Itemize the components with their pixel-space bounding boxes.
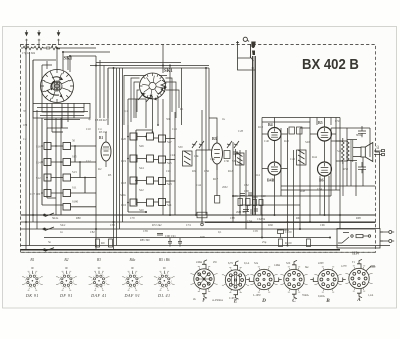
svg-text:S27: S27: [167, 140, 172, 144]
svg-text:R60: R60: [268, 223, 274, 227]
connector F: [190, 260, 217, 298]
wire rect around SK1a: [33, 48, 110, 132]
wire vertical x100: [99, 60, 101, 118]
wire vertical x96: [95, 56, 97, 250]
output transformer primary winding: [342, 138, 345, 164]
svg-text:R40: R40: [284, 139, 290, 143]
wire verticals x170 x175: [170, 66, 175, 216]
labels near B3: [194, 154, 237, 181]
bus y222: [21, 221, 221, 223]
wire vertical x37: [36, 110, 38, 229]
svg-text:C62 5n: C62 5n: [257, 218, 266, 221]
tube socket B4a: [122, 271, 143, 291]
coil boxes mid right column: [147, 133, 154, 140]
wire x206: [202, 68, 206, 222]
svg-text:R98: R98: [356, 217, 361, 220]
wire right side verticals: [347, 128, 370, 196]
bus y229: [21, 228, 376, 230]
wire right edge vertical: [375, 152, 380, 229]
switch contacts on buses: [42, 213, 54, 251]
svg-text:C2: C2: [23, 137, 27, 141]
connector D: [246, 267, 281, 292]
electrolytic C100: [278, 230, 311, 247]
capacitor C90 pair mid: [157, 234, 182, 247]
svg-text:C8 R9 4k7: C8 R9 4k7: [95, 119, 108, 122]
svg-text:L-10W: L-10W: [253, 294, 261, 297]
svg-text:C96: C96: [320, 224, 325, 227]
connector A: [345, 259, 375, 297]
wire top horizontal bus y65: [90, 65, 209, 67]
middle coil bank wires: [128, 125, 175, 212]
svg-text:S13: S13: [72, 170, 77, 174]
svg-text:S12: S12: [36, 176, 41, 180]
wires: top area: [26, 44, 209, 250]
svg-text:C40: C40: [264, 139, 270, 143]
mains box bottom right: [337, 215, 383, 248]
tube socket B1: [22, 271, 43, 291]
labels left coil bank: [30, 139, 79, 204]
trimmer arrows near B3: [192, 141, 239, 148]
svg-text:1M: 1M: [23, 123, 28, 127]
svg-text:S23: S23: [167, 182, 172, 186]
svg-text:R48: R48: [300, 189, 306, 193]
switch wiper arrows SK1b: [141, 92, 152, 98]
svg-text:BX 402 B: BX 402 B: [302, 55, 359, 72]
bus y237.5: [44, 237, 330, 239]
coil loops left of SK1b: [124, 76, 179, 126]
svg-text:C26: C26: [166, 170, 171, 173]
wires: right half: [196, 68, 375, 246]
svg-text:C4: C4: [98, 127, 102, 131]
svg-text:S16: S16: [36, 145, 41, 149]
connector B: [310, 267, 345, 292]
tube B5: [318, 127, 332, 141]
svg-text:C12: C12: [86, 160, 91, 163]
wire B3 leads: [196, 118, 217, 215]
svg-text:DF 91: DF 91: [59, 293, 73, 298]
bus y249.7 dark: [21, 249, 341, 251]
svg-text:SK1: SK1: [164, 69, 173, 74]
svg-text:800Ω: 800Ω: [356, 133, 364, 137]
switch wiper arrows SK1a: [47, 90, 59, 95]
resistor R95 on bus: [96, 239, 113, 247]
svg-text:C80: C80: [110, 223, 116, 227]
wire vertical x56 x61: [56, 118, 61, 215]
svg-text:R12: R12: [228, 170, 233, 173]
svg-text:C56: C56: [204, 169, 210, 173]
svg-text:B1: B1: [99, 136, 103, 140]
svg-text:D: D: [261, 298, 266, 304]
wire B4 anode: [262, 118, 288, 216]
IF transformer S30: [183, 151, 193, 166]
svg-text:C22: C22: [172, 127, 178, 131]
mains switch inside box: [338, 233, 371, 244]
wire bundle near B1: [114, 68, 123, 250]
tube B3: [212, 136, 223, 170]
svg-text:R44: R44: [312, 155, 318, 159]
tube socket B5B6: [154, 271, 175, 291]
grid capacitor group B3: [224, 149, 238, 159]
bus y215: [21, 214, 376, 216]
svg-text:S25: S25: [167, 161, 172, 165]
svg-text:F: F: [202, 298, 206, 304]
svg-text:B4a: B4a: [130, 258, 136, 262]
wires crossing SK1a: [33, 56, 181, 120]
bus y245.5: [21, 245, 391, 247]
value labels scatter: [23, 107, 364, 239]
socket surround labels: [193, 261, 376, 302]
svg-text:C64: C64: [247, 219, 253, 223]
tube B4B: [268, 162, 281, 175]
svg-text:C16: C16: [121, 203, 127, 207]
svg-text:C44: C44: [196, 183, 202, 187]
svg-text:SK2a: SK2a: [52, 217, 59, 220]
svg-text:DAF 91: DAF 91: [124, 293, 141, 298]
wire horizontals output: [331, 140, 357, 161]
resistor R90 on bus: [197, 212, 207, 226]
svg-text:S41: S41: [337, 149, 342, 153]
rotary switch SK1a: [41, 70, 74, 103]
svg-text:R72 2k2: R72 2k2: [152, 224, 162, 227]
svg-text:C10: C10: [86, 128, 91, 131]
antenna band arrows: [25, 30, 60, 45]
svg-text:R17: R17: [213, 177, 219, 181]
svg-text:S180: S180: [72, 200, 79, 204]
svg-text:DAF 41: DAF 41: [90, 293, 107, 298]
svg-text:S15: S15: [72, 155, 77, 159]
svg-text:Ω: Ω: [377, 146, 380, 150]
svg-text:R50: R50: [343, 167, 349, 171]
svg-text:R100: R100: [285, 241, 292, 245]
labels middle coil bank: [121, 137, 172, 212]
svg-text:B: B: [325, 298, 330, 304]
svg-text:C88: C88: [230, 217, 235, 220]
svg-text:S40: S40: [305, 140, 310, 144]
svg-text:B4B: B4B: [267, 178, 275, 183]
svg-text:R92: R92: [296, 217, 301, 220]
coil boxes right column: [63, 143, 71, 150]
svg-text:6,3V: 6,3V: [228, 262, 233, 265]
svg-text:2M2 50p: 2M2 50p: [236, 211, 247, 214]
wire B5 column: [310, 118, 336, 223]
svg-text:C95: C95: [253, 229, 259, 233]
coil boxes mid left column: [130, 133, 137, 140]
wire horizontal mid right: [262, 122, 370, 128]
svg-text:35mA: 35mA: [302, 294, 309, 297]
coil boxes S col: [159, 135, 166, 142]
svg-text:25µ: 25µ: [262, 241, 267, 244]
svg-text:DL 41: DL 41: [157, 293, 171, 298]
svg-text:C28: C28: [238, 129, 244, 133]
wire verticals x287-300: [288, 128, 301, 246]
wire top loop B4 B5: [262, 118, 340, 238]
svg-text:2M2: 2M2: [222, 185, 228, 189]
svg-text:0,1: 0,1: [218, 231, 222, 234]
svg-text:S24: S24: [139, 166, 144, 170]
svg-text:S20a: S20a: [120, 194, 126, 197]
svg-text:B5 i B6: B5 i B6: [159, 258, 170, 262]
chassis dashed border: [21, 45, 376, 253]
svg-text:4W: 4W: [213, 261, 217, 264]
IF transformer S40: [297, 150, 307, 165]
svg-text:C46: C46: [290, 157, 296, 161]
svg-text:1k: 1k: [222, 117, 226, 121]
tube B6: [318, 162, 332, 176]
connector C: [280, 260, 307, 298]
svg-text:240Ω: 240Ω: [196, 261, 202, 264]
svg-text:A-250mA: A-250mA: [212, 299, 223, 302]
svg-text:50: 50: [72, 139, 76, 143]
svg-text:C: C: [292, 298, 296, 304]
svg-text:B2: B2: [64, 258, 68, 262]
svg-text:S30: S30: [178, 145, 183, 149]
svg-text:0,46A: 0,46A: [318, 295, 325, 298]
wire horizontal y205: [240, 204, 300, 206]
svg-text:R1: R1: [180, 107, 184, 111]
svg-text:R85 390: R85 390: [140, 239, 150, 242]
wire horizontal y196: [233, 195, 331, 197]
svg-text:C24: C24: [170, 154, 175, 157]
IF transformer S31: [236, 153, 245, 165]
wire horizontal y186: [281, 186, 375, 190]
svg-text:S22: S22: [139, 188, 144, 192]
tube B1: [101, 132, 111, 167]
svg-text:B3: B3: [97, 258, 101, 262]
antenna connector top: [236, 37, 256, 70]
tube B4: [268, 128, 281, 141]
left coil bank wires: [42, 118, 96, 210]
wire left vertical loop: [26, 44, 33, 250]
coil boxes left column: [44, 143, 51, 150]
svg-text:17p 1n 3k9: 17p 1n 3k9: [22, 51, 36, 55]
svg-text:50k: 50k: [166, 117, 171, 121]
svg-text:35: 35: [23, 109, 27, 113]
component cluster below B4B: [238, 193, 263, 215]
svg-text:C100: C100: [285, 230, 292, 234]
svg-text:C-9V: C-9V: [229, 297, 235, 300]
svg-text:S21: S21: [167, 203, 172, 207]
bandswitch zigzag SK1b: [161, 80, 166, 92]
svg-text:R36: R36: [253, 196, 258, 199]
trimmer arrows at SK1b: [138, 93, 153, 102]
svg-text:C90 C91: C90 C91: [165, 234, 176, 238]
tube socket B2: [56, 271, 77, 291]
svg-text:127V: 127V: [341, 265, 347, 268]
wire B4B leads: [262, 128, 288, 196]
svg-text:R90: R90: [200, 235, 206, 239]
svg-text:S26: S26: [139, 144, 144, 148]
svg-text:C30: C30: [224, 159, 230, 163]
svg-text:4p: 4p: [88, 117, 92, 121]
connector E: [222, 261, 249, 299]
main bus lines: [21, 215, 391, 250]
value labels extra: [48, 128, 361, 244]
svg-text:1,5k: 1,5k: [210, 158, 215, 161]
svg-text:140Ω: 140Ω: [274, 264, 280, 267]
output transformer secondary winding: [336, 141, 349, 161]
svg-text:SK2: SK2: [60, 223, 66, 227]
svg-text:C60: C60: [261, 195, 266, 198]
svg-text:6Ω: 6Ω: [305, 266, 308, 269]
transformer core lines: [351, 140, 353, 162]
svg-text:B3: B3: [212, 136, 217, 141]
speaker terminals: [374, 150, 385, 156]
svg-text:R80: R80: [76, 217, 81, 220]
svg-text:S14: S14: [36, 161, 41, 165]
antenna lead-in dark pair: [253, 56, 256, 215]
capacitor C102 top: [358, 126, 366, 173]
loudspeaker: [353, 143, 373, 162]
svg-text:C17 100: C17 100: [30, 192, 41, 196]
wire extra verticals right: [317, 118, 351, 223]
svg-text:C18: C18: [121, 181, 127, 185]
svg-text:220V: 220V: [318, 262, 324, 265]
svg-text:C74: C74: [186, 224, 191, 227]
svg-text:C85: C85: [143, 229, 149, 233]
svg-text:C58: C58: [244, 190, 249, 193]
svg-text:B1: B1: [30, 258, 34, 262]
wire sk1b leads: [153, 96, 164, 215]
svg-text:R14: R14: [255, 174, 260, 177]
svg-text:0,1A: 0,1A: [244, 262, 249, 265]
dashed separator above sockets: [21, 251, 376, 253]
svg-text:DK 91: DK 91: [25, 293, 39, 298]
input filter L1: [21, 44, 60, 50]
svg-text:R10: R10: [258, 125, 264, 129]
labels cluster: [233, 190, 289, 232]
svg-text:C70: C70: [130, 217, 135, 220]
wire verticals right of B3: [233, 142, 246, 229]
wire rect around SK1b: [108, 68, 209, 150]
svg-text:S20: S20: [139, 208, 144, 212]
svg-text:R9: R9: [101, 241, 105, 245]
svg-text:B4: B4: [268, 122, 273, 127]
svg-text:C82: C82: [90, 231, 95, 234]
svg-text:10k: 10k: [194, 154, 199, 158]
mains plug pins: [381, 231, 395, 243]
svg-text:C50: C50: [335, 119, 341, 123]
capacitor C46: [289, 127, 302, 134]
resistor R16 cathode B3: [215, 196, 220, 204]
rotary switch SK1b: [140, 73, 167, 100]
svg-text:B5: B5: [318, 120, 323, 125]
svg-text:R2: R2: [98, 167, 102, 171]
svg-text:S11: S11: [72, 186, 77, 190]
tube socket B3s: [89, 271, 110, 291]
svg-text:110V: 110V: [370, 266, 376, 269]
svg-text:1,2A: 1,2A: [368, 294, 373, 297]
svg-text:C19: C19: [121, 159, 127, 163]
svg-text:S2b: S2b: [286, 262, 291, 265]
svg-text:C32: C32: [244, 184, 249, 187]
svg-text:R6: R6: [192, 169, 196, 173]
wire verticals x146 x163: [146, 45, 163, 129]
svg-text:SK1: SK1: [64, 57, 73, 62]
svg-text:S30: S30: [232, 159, 237, 163]
svg-text:C20: C20: [121, 137, 127, 141]
svg-text:A: A: [356, 297, 361, 303]
